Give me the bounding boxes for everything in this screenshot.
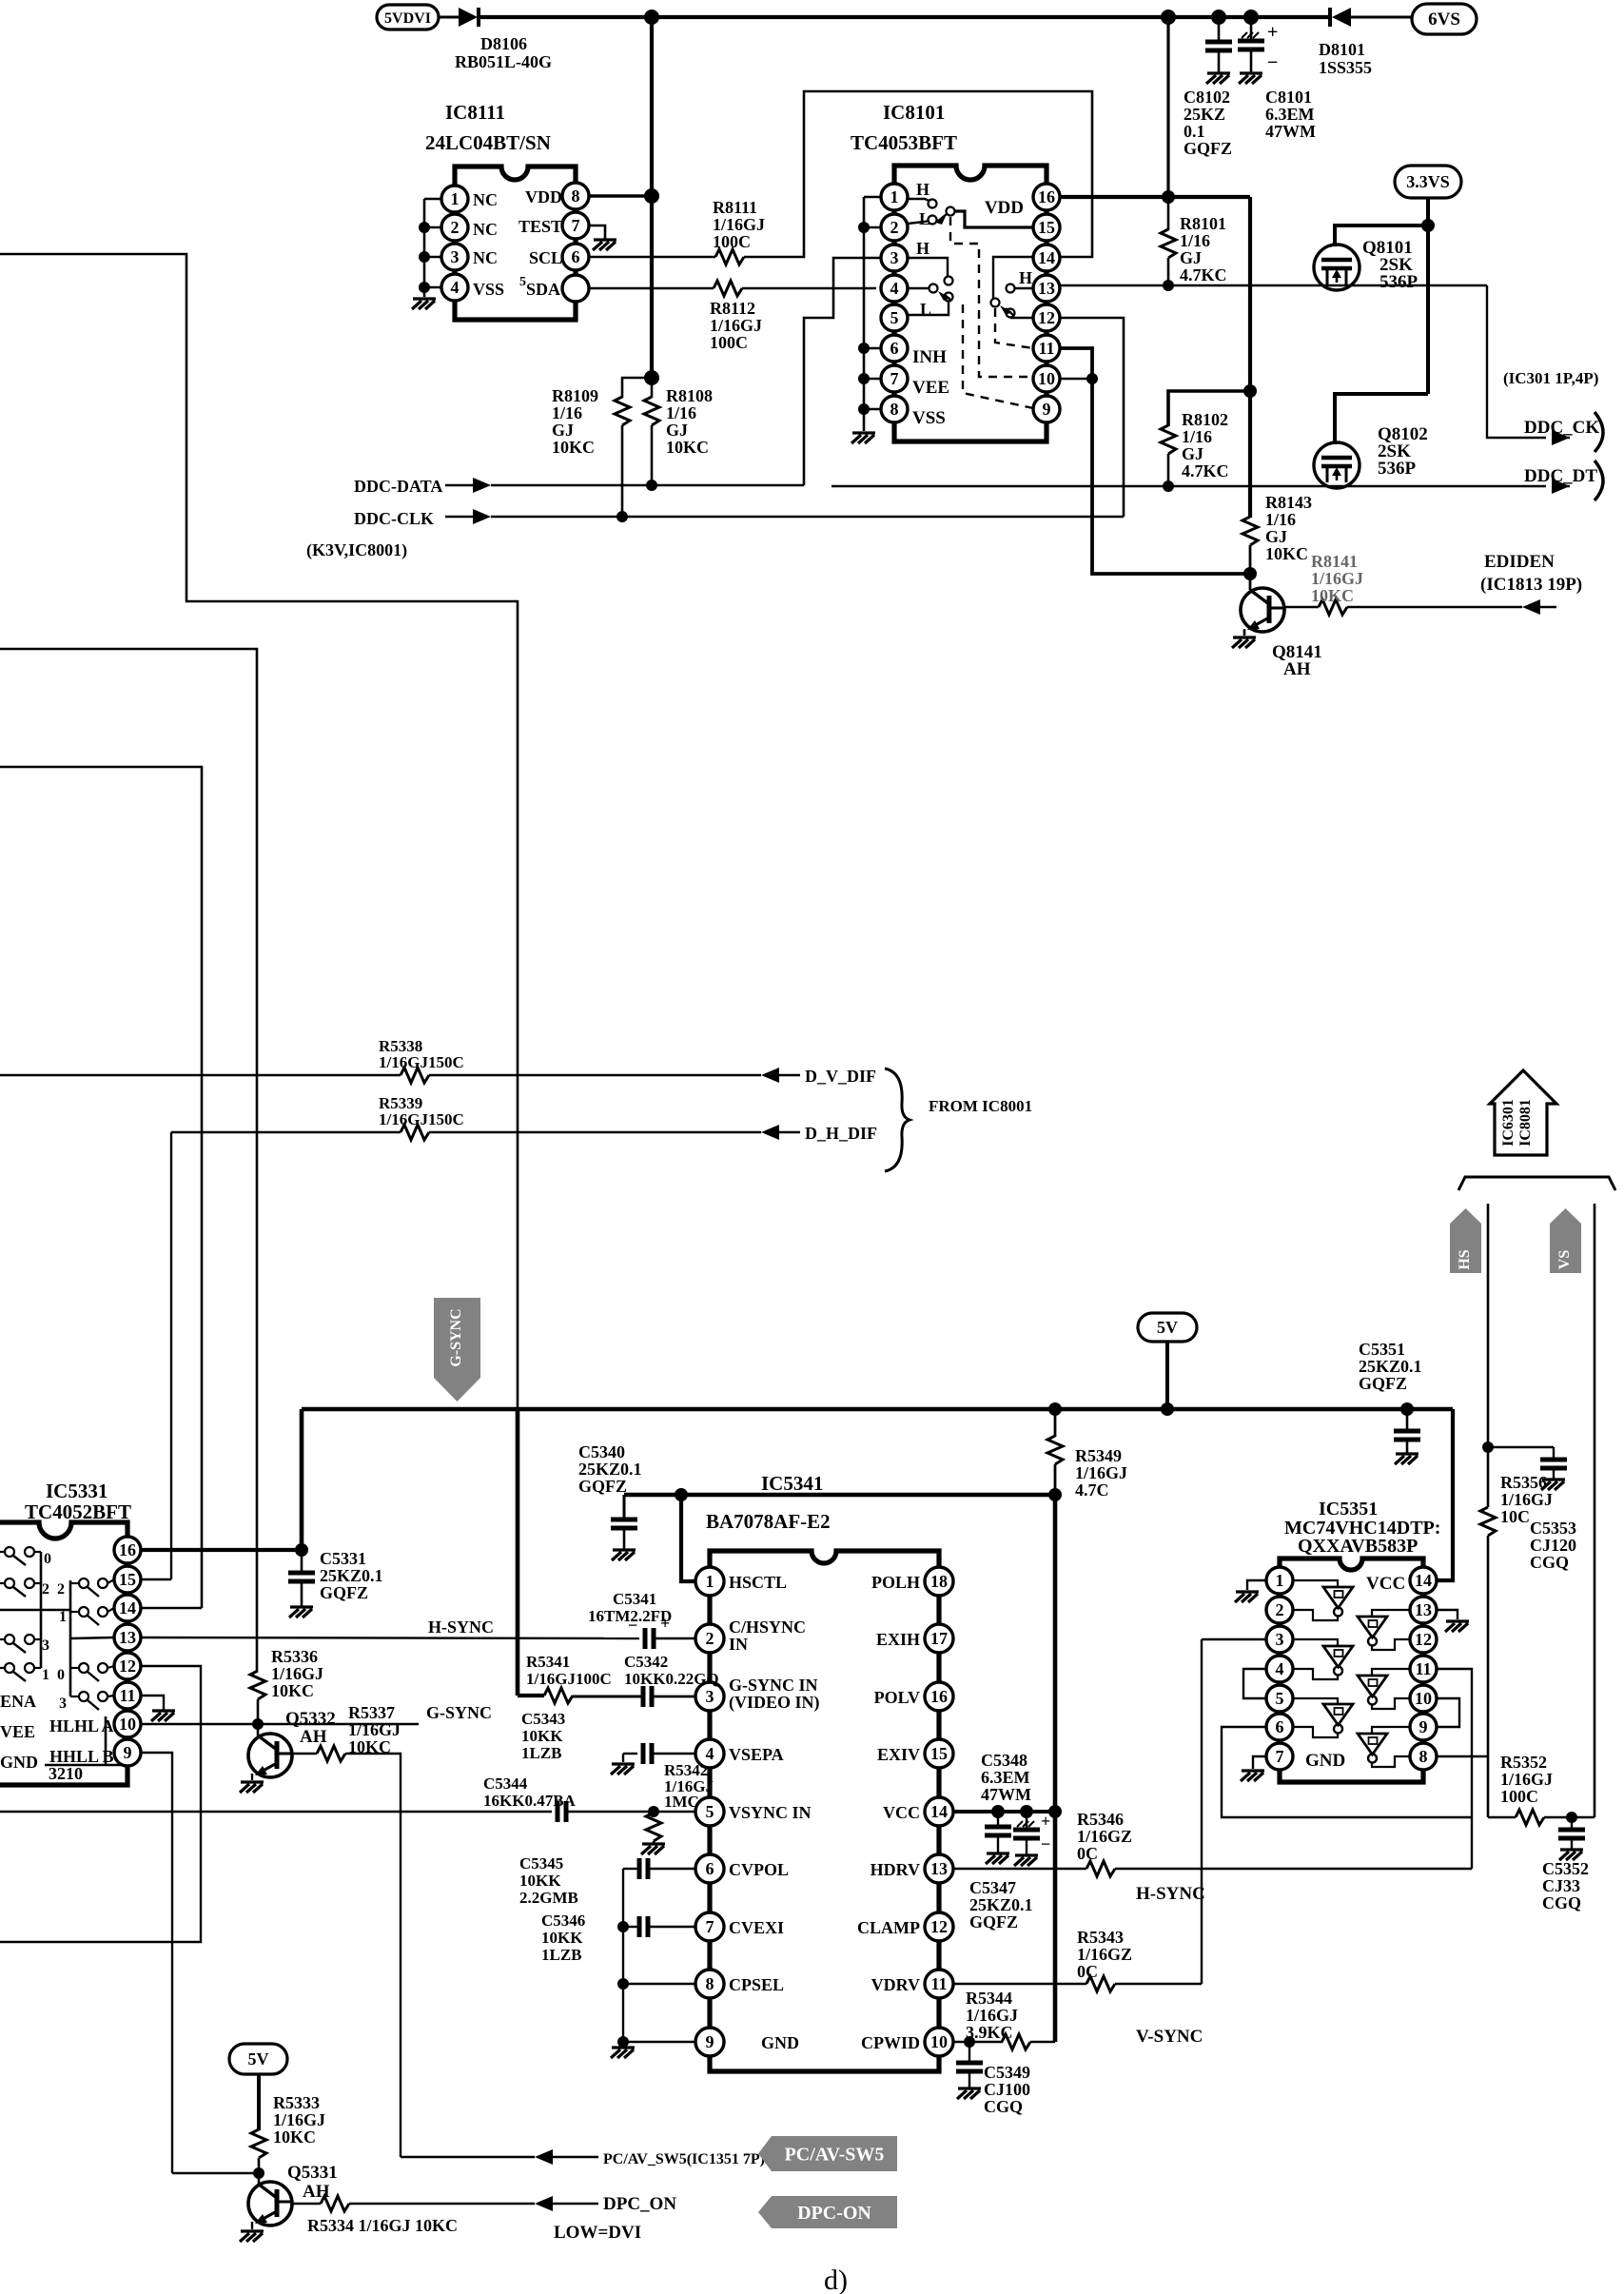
svg-text:7: 7 bbox=[706, 1917, 714, 1936]
wire pin10 CPWID bbox=[952, 2041, 1003, 2043]
resistor R5343 bbox=[1086, 1976, 1115, 1991]
resistor R5349 bbox=[1054, 1409, 1057, 1437]
wire pin11 VDRV out bbox=[952, 1983, 1086, 1985]
wire VSYNC-IN from left edge bbox=[0, 1811, 552, 1813]
junction rail / R5349 bbox=[1048, 1402, 1062, 1416]
svg-text:1/16GJ: 1/16GJ bbox=[348, 1720, 401, 1739]
junction rail / IC5341 pin1 bbox=[675, 1488, 688, 1501]
svg-text:CVPOL: CVPOL bbox=[729, 1860, 789, 1879]
svg-text:VDRV: VDRV bbox=[871, 1975, 920, 1994]
IC5341 pin 7 bbox=[695, 1912, 724, 1941]
wire pin15 to D_H_DIF riser bbox=[141, 1578, 171, 1580]
IC5341 pin 16 bbox=[925, 1682, 953, 1711]
svg-text:EXIV: EXIV bbox=[877, 1745, 920, 1764]
IC5331 internal pin14 row line bbox=[0, 1609, 70, 1612]
IC5351 pin 10 bbox=[1410, 1685, 1437, 1712]
capacitor C5353 bbox=[1540, 1460, 1567, 1468]
wire R5341 to C5342 bbox=[573, 1696, 643, 1698]
wire R8108 top bbox=[651, 378, 654, 398]
junction IC8101 pin6 bbox=[858, 343, 870, 354]
wire C5344 to pin5 bbox=[566, 1811, 696, 1813]
inverter gate 6 bbox=[1358, 1734, 1387, 1755]
svg-text:14: 14 bbox=[1038, 248, 1055, 267]
wire pin11 ground stub bbox=[141, 1696, 164, 1710]
resistor R5333 bbox=[251, 2129, 266, 2158]
wire D_V_DIF bbox=[0, 1074, 401, 1076]
junction x1314 y411 bbox=[1243, 384, 1257, 398]
svg-text:1: 1 bbox=[706, 1572, 714, 1591]
wire pin12 down-left exit bbox=[0, 1666, 201, 1942]
svg-text:C5342: C5342 bbox=[624, 1653, 668, 1671]
svg-text:1/16: 1/16 bbox=[1180, 231, 1210, 250]
arrow D_H_DIF bbox=[761, 1125, 779, 1140]
resistor R8102 bbox=[1161, 425, 1176, 454]
IC5331 internal switch contacts left group bbox=[0, 1551, 4, 1553]
wire IC8101 left common bus bbox=[864, 196, 881, 199]
switch SW-C contacts (pins13/12) bbox=[1007, 284, 1015, 293]
wire down to R8143 bbox=[1248, 391, 1252, 518]
svg-text:D_V_DIF: D_V_DIF bbox=[805, 1067, 876, 1086]
svg-text:8: 8 bbox=[572, 186, 580, 206]
svg-text:1SS355: 1SS355 bbox=[1319, 58, 1372, 77]
svg-text:13: 13 bbox=[1415, 1600, 1432, 1619]
svg-text:15: 15 bbox=[930, 1744, 948, 1763]
svg-text:VSYNC IN: VSYNC IN bbox=[729, 1803, 812, 1822]
ground IC8111 TEST bbox=[593, 240, 616, 250]
transistor Q8101 (2SK536P MOSFET) bbox=[1314, 245, 1360, 290]
wire pin8 VDD bbox=[589, 194, 652, 198]
wire D8106 to top rail bbox=[479, 15, 1330, 19]
svg-text:R8108: R8108 bbox=[666, 386, 713, 405]
junction R5349 / VCC rail bbox=[1048, 1488, 1062, 1501]
svg-text:3.9KC: 3.9KC bbox=[966, 2023, 1013, 2042]
IC8101 pin 11 bbox=[1033, 335, 1060, 362]
svg-text:POLH: POLH bbox=[871, 1573, 920, 1592]
svg-text:13: 13 bbox=[119, 1628, 136, 1647]
svg-text:7: 7 bbox=[572, 216, 580, 235]
svg-text:10KC: 10KC bbox=[1311, 586, 1354, 605]
signal banner G-SYNC bbox=[434, 1298, 480, 1402]
svg-text:R5334 1/16GJ 10KC: R5334 1/16GJ 10KC bbox=[307, 2216, 458, 2235]
wire pin9 input g6 bbox=[1372, 1727, 1410, 1734]
wire pin8 stub bbox=[864, 408, 881, 411]
svg-text:IC8111: IC8111 bbox=[445, 101, 505, 124]
svg-text:2: 2 bbox=[890, 218, 899, 237]
capacitor C5348 electrolytic bbox=[1026, 1812, 1027, 1829]
arrow DDC_DT bbox=[1552, 479, 1570, 494]
svg-text:100C: 100C bbox=[710, 333, 748, 352]
svg-text:LOW=DVI: LOW=DVI bbox=[554, 2223, 641, 2243]
svg-text:R8102: R8102 bbox=[1182, 410, 1228, 429]
svg-text:CJ33: CJ33 bbox=[1542, 1876, 1580, 1895]
wire HS to pin8 row bbox=[1487, 1536, 1490, 1756]
IC8111 pin 7 bbox=[562, 212, 589, 239]
svg-text:R5349: R5349 bbox=[1075, 1446, 1122, 1465]
svg-text:INH: INH bbox=[912, 347, 947, 367]
resistor R8143 bbox=[1242, 517, 1258, 545]
svg-text:6.3EM: 6.3EM bbox=[981, 1768, 1030, 1787]
IC8101 pin 14 bbox=[1033, 245, 1060, 271]
brace FROM IC8001 bbox=[885, 1069, 910, 1171]
svg-text:G-SYNC IN: G-SYNC IN bbox=[729, 1676, 818, 1695]
svg-text:14: 14 bbox=[1415, 1571, 1432, 1590]
svg-text:C5341: C5341 bbox=[613, 1590, 656, 1608]
wire H-SYNC riser to IC5351 pin3 bbox=[1201, 1639, 1203, 1869]
wire IC8101 pin16 to VDD bbox=[1060, 195, 1250, 199]
capacitor C5352 bbox=[1571, 1817, 1573, 1830]
svg-text:10KC: 10KC bbox=[1265, 544, 1308, 563]
svg-text:3: 3 bbox=[451, 247, 460, 266]
wire Q8101 drain to DDC_CK bbox=[1487, 285, 1546, 438]
wire R8141 to EDIDEN bbox=[1347, 606, 1522, 608]
IC5341 pin 17 bbox=[925, 1624, 953, 1653]
svg-text:D8101: D8101 bbox=[1319, 40, 1365, 59]
wire 3.3VS stem bbox=[1426, 198, 1430, 225]
ground Q5331 emitter bbox=[251, 2222, 253, 2229]
capacitor C5343 series bbox=[643, 1743, 652, 1764]
svg-text:2: 2 bbox=[451, 218, 460, 237]
wire IC8101 pin11 riser bbox=[1060, 348, 1250, 574]
svg-text:GND: GND bbox=[761, 2033, 799, 2052]
wire C5346 to pin7 bbox=[648, 1926, 696, 1928]
resistor R8109 bbox=[615, 397, 630, 425]
svg-text:EDIDEN: EDIDEN bbox=[1484, 552, 1555, 572]
capacitor C5351 bbox=[1406, 1409, 1409, 1431]
svg-text:3.3VS: 3.3VS bbox=[1406, 172, 1450, 191]
IC5341 pin 12 bbox=[925, 1912, 953, 1941]
power terminal 3.3VS bbox=[1395, 166, 1461, 198]
wire C5353 branch bbox=[1488, 1446, 1554, 1448]
IC5341 pin 4 bbox=[695, 1739, 724, 1768]
wire V-SYNC riser bbox=[1201, 1869, 1203, 1984]
wire pin11 input g4 bbox=[1372, 1669, 1410, 1676]
dashed control line to pin9 bbox=[963, 304, 1033, 408]
wire SW-C to pin12 bbox=[1010, 317, 1033, 319]
wire pin14 to line-C riser bbox=[141, 1607, 202, 1609]
power terminal 5V bottom bbox=[229, 2044, 287, 2074]
arrow DDC-DATA bbox=[445, 484, 473, 486]
IC5351 pin 12 bbox=[1410, 1626, 1437, 1653]
svg-text:HHLL B: HHLL B bbox=[49, 1747, 114, 1766]
svg-text:5VDVI: 5VDVI bbox=[384, 10, 431, 27]
IC5331 pin 9 bbox=[114, 1739, 141, 1766]
svg-text:6: 6 bbox=[572, 247, 580, 266]
svg-text:AH: AH bbox=[1283, 659, 1311, 679]
svg-text:9: 9 bbox=[1419, 1717, 1428, 1736]
resistor R8101 bbox=[1167, 197, 1170, 230]
IC5331 pin 16 bbox=[114, 1537, 141, 1563]
wire pin13 HDRV out bbox=[952, 1868, 1086, 1870]
svg-text:NC: NC bbox=[473, 190, 498, 209]
svg-text:(VIDEO IN): (VIDEO IN) bbox=[729, 1693, 820, 1713]
bracket DDC_CK bbox=[1595, 412, 1603, 452]
wire 5V stem bbox=[1165, 1342, 1169, 1409]
junction IC8101 pin7 bbox=[858, 373, 870, 384]
power terminal 5VDVI bbox=[377, 5, 439, 29]
inverter gate 3 bbox=[1323, 1646, 1353, 1667]
transistor Q8141 bbox=[1249, 574, 1252, 590]
svg-text:R8109: R8109 bbox=[552, 386, 598, 405]
junction VDD bus pin8 bbox=[644, 188, 659, 204]
svg-text:Q5332: Q5332 bbox=[285, 1709, 336, 1729]
wire R5352 to VS riser bbox=[1544, 1816, 1595, 1818]
svg-text:6: 6 bbox=[1276, 1717, 1284, 1736]
IC5331 pin 13 bbox=[114, 1624, 141, 1651]
ground IC5351 pin13 bbox=[1445, 1621, 1469, 1632]
svg-text:−: − bbox=[1041, 1834, 1050, 1853]
svg-text:R5343: R5343 bbox=[1077, 1928, 1124, 1947]
svg-text:8: 8 bbox=[890, 400, 899, 419]
resistor R5341 bbox=[544, 1688, 573, 1703]
IC5341 pin 3 bbox=[695, 1682, 724, 1711]
svg-text:DDC_CK: DDC_CK bbox=[1524, 418, 1599, 438]
wire pin14 VCC bbox=[952, 1810, 1055, 1814]
wire gate feed Q8102 bbox=[1335, 394, 1428, 444]
svg-text:11: 11 bbox=[1038, 339, 1054, 358]
svg-text:10KK: 10KK bbox=[541, 1929, 583, 1947]
svg-text:16KK0.47BA: 16KK0.47BA bbox=[483, 1792, 577, 1810]
svg-text:12: 12 bbox=[930, 1917, 948, 1936]
wire pin2 stub bbox=[424, 226, 441, 229]
svg-text:CLAMP: CLAMP bbox=[857, 1918, 920, 1937]
wire R8112 to IC8101 pin4 bbox=[742, 287, 876, 290]
svg-text:−: − bbox=[1267, 52, 1278, 73]
ground IC5331 pin11 bbox=[151, 1711, 175, 1721]
signal banner VS bbox=[1550, 1208, 1581, 1273]
wire SCL pin6 to R8111 bbox=[589, 256, 715, 259]
svg-text:IC6301: IC6301 bbox=[1500, 1099, 1516, 1147]
svg-text:C/HSYNC: C/HSYNC bbox=[729, 1618, 806, 1637]
svg-text:HDRV: HDRV bbox=[871, 1860, 920, 1879]
ground C5348 bbox=[1014, 1855, 1038, 1866]
svg-text:16: 16 bbox=[119, 1540, 136, 1559]
resistor R5344 bbox=[1002, 2034, 1030, 2049]
capacitor C5347 bbox=[997, 1812, 999, 1827]
svg-text:R5341: R5341 bbox=[526, 1653, 570, 1671]
wire g3 out to pin4 bbox=[1293, 1669, 1338, 1679]
svg-text:(IC1813 19P): (IC1813 19P) bbox=[1480, 575, 1582, 595]
svg-text:11: 11 bbox=[119, 1686, 135, 1705]
wire pin2 to SW-A L bbox=[908, 221, 929, 224]
power terminal 6VS bbox=[1412, 4, 1477, 34]
svg-text:3: 3 bbox=[890, 248, 899, 267]
wire pin8 junction to R5352 bbox=[1487, 1756, 1490, 1817]
svg-text:DDC_DT: DDC_DT bbox=[1524, 466, 1597, 486]
svg-text:1/16GJ: 1/16GJ bbox=[1311, 569, 1363, 588]
svg-text:NC: NC bbox=[473, 220, 498, 239]
wire Q8141 collector bbox=[1282, 606, 1319, 608]
IC8101 pin 15 bbox=[1033, 214, 1060, 241]
arrow DPC_ON bbox=[535, 2196, 553, 2211]
switch SW-A arm bbox=[936, 214, 947, 225]
svg-text:3210: 3210 bbox=[49, 1764, 83, 1783]
ground IC5351 pin1 bbox=[1235, 1592, 1259, 1602]
wire SW-C H to pin13 bbox=[1014, 287, 1033, 289]
IC5331 pin 10 bbox=[114, 1711, 141, 1737]
svg-text:R8112: R8112 bbox=[710, 299, 755, 318]
wire G-SYNC to R5341 bbox=[518, 1694, 544, 1697]
junction pin16/R8101 bbox=[1162, 190, 1175, 204]
wire line-C from left edge bbox=[0, 767, 202, 1608]
junction Q5331 base bbox=[253, 2167, 264, 2179]
svg-text:7: 7 bbox=[1276, 1747, 1284, 1766]
wire VCC rail horiz bbox=[624, 1493, 1055, 1498]
signal banner DPC-ON bbox=[758, 2196, 897, 2228]
capacitor C5345 series bbox=[639, 1858, 648, 1879]
svg-text:2: 2 bbox=[57, 1581, 65, 1598]
IC8111 pin 3 bbox=[441, 244, 468, 270]
ground C5340 bbox=[612, 1550, 636, 1560]
signal banner PC/AV-SW5 bbox=[758, 2136, 897, 2171]
wire HS line bbox=[1487, 1204, 1490, 1507]
wire R8108 bottom bbox=[651, 425, 654, 485]
ground Q5332 emitter bbox=[251, 1774, 253, 1780]
svg-text:1/16GJ: 1/16GJ bbox=[1500, 1770, 1553, 1789]
svg-text:C5349: C5349 bbox=[984, 2063, 1030, 2082]
junction R8102 / DDC_DT line bbox=[1163, 480, 1174, 492]
svg-text:VSEPA: VSEPA bbox=[729, 1745, 784, 1764]
wire g4 out to pin10 bbox=[1372, 1698, 1410, 1709]
svg-text:VEE: VEE bbox=[0, 1722, 35, 1741]
wire C5343 to pin4 bbox=[652, 1753, 696, 1755]
IC8111 pin 6 bbox=[562, 244, 589, 270]
wire vertical VDD bus x=685 bbox=[650, 17, 654, 378]
dashed control line to pin10 bbox=[950, 217, 1033, 377]
svg-text:3: 3 bbox=[59, 1696, 67, 1712]
wire R5334 to DPC_ON bbox=[349, 2203, 535, 2205]
svg-text:SDA: SDA bbox=[526, 280, 560, 299]
junction pin10 on riser bbox=[1086, 373, 1098, 384]
switch SW-C arm bbox=[1000, 305, 1012, 315]
svg-text:536P: 536P bbox=[1378, 459, 1417, 479]
capacitor C5349 bbox=[969, 2042, 970, 2063]
svg-text:C8101: C8101 bbox=[1265, 88, 1312, 107]
wire DDC-CLK bbox=[491, 516, 1124, 518]
svg-text:VCC: VCC bbox=[1366, 1574, 1405, 1594]
svg-text:IC5341: IC5341 bbox=[761, 1472, 823, 1495]
IC8101 pin 13 bbox=[1033, 275, 1060, 302]
wire 3.3VS down bbox=[1426, 225, 1430, 394]
svg-text:PC/AV_SW5(IC1351 7P): PC/AV_SW5(IC1351 7P) bbox=[603, 2151, 765, 2167]
svg-text:1/16GJ: 1/16GJ bbox=[1075, 1463, 1127, 1482]
junction VDD bus bottom bbox=[644, 370, 659, 385]
wire rail left drop to IC5331 pin16 bbox=[300, 1409, 304, 1550]
svg-text:VDD: VDD bbox=[525, 187, 562, 206]
IC5331 pin 11 bbox=[114, 1682, 141, 1709]
IC5331 internal switch contacts right group bbox=[70, 1582, 79, 1584]
svg-text:25KZ0.1: 25KZ0.1 bbox=[578, 1460, 642, 1479]
junction cap bus pin7 bbox=[617, 1921, 629, 1932]
wire pin9 riser down bbox=[141, 1753, 172, 2173]
IC5341 pin 9 bbox=[695, 2028, 724, 2056]
resistor R5356 bbox=[1480, 1507, 1496, 1536]
svg-text:4.7KC: 4.7KC bbox=[1182, 461, 1229, 480]
svg-text:1/16GJ100C: 1/16GJ100C bbox=[526, 1670, 612, 1688]
svg-text:16: 16 bbox=[1038, 187, 1055, 206]
svg-text:13: 13 bbox=[930, 1859, 948, 1878]
svg-text:C5347: C5347 bbox=[969, 1878, 1016, 1897]
capacitor C5344 series bbox=[558, 1801, 566, 1822]
svg-text:D_H_DIF: D_H_DIF bbox=[805, 1124, 877, 1143]
svg-text:RB051L-40G: RB051L-40G bbox=[455, 52, 552, 71]
svg-text:C5344: C5344 bbox=[483, 1774, 528, 1793]
svg-text:2: 2 bbox=[42, 1581, 49, 1598]
svg-text:VSS: VSS bbox=[912, 408, 946, 428]
switch SW-B arm bbox=[938, 291, 950, 301]
IC5341 pin 15 bbox=[925, 1739, 953, 1768]
svg-text:10: 10 bbox=[930, 2032, 948, 2051]
ground C5353 bbox=[1541, 1480, 1565, 1490]
capacitor C5341 series polarized bbox=[645, 1628, 654, 1649]
svg-text:2: 2 bbox=[706, 1629, 714, 1648]
svg-text:6.3EM: 6.3EM bbox=[1265, 105, 1315, 124]
wire IC8101 pin3 to DDC-DATA bbox=[804, 258, 881, 485]
svg-text:4.7KC: 4.7KC bbox=[1180, 265, 1227, 284]
wire Q5331 collector bbox=[290, 2203, 321, 2205]
wire C5345 to pin6 bbox=[648, 1868, 696, 1870]
wire R5337 to PC/AV riser bbox=[345, 1754, 401, 2157]
wire SW-B L to pin5 bbox=[908, 302, 949, 315]
junction HS / C5353 bbox=[1482, 1441, 1494, 1453]
svg-text:1/16GJ: 1/16GJ bbox=[966, 2006, 1018, 2025]
svg-text:5: 5 bbox=[1276, 1689, 1284, 1708]
svg-text:4: 4 bbox=[1276, 1659, 1284, 1678]
svg-text:1/16GZ: 1/16GZ bbox=[1077, 1945, 1132, 1964]
junction cap bus pin9 bbox=[617, 2036, 629, 2048]
svg-text:1LZB: 1LZB bbox=[541, 1946, 582, 1964]
wire Q5332 collector bbox=[290, 1753, 317, 1755]
svg-text:HLHL A: HLHL A bbox=[49, 1716, 114, 1735]
IC5331 pin 15 bbox=[114, 1566, 141, 1593]
capacitor C5331 bbox=[301, 1550, 303, 1573]
transistor Q8102 (2SK536P MOSFET) bbox=[1314, 442, 1360, 488]
svg-text:1/16: 1/16 bbox=[552, 403, 582, 422]
ground below C8101 bbox=[1239, 73, 1262, 84]
wire pin6 cap bus bbox=[623, 1868, 637, 1870]
IC5341 pin 6 bbox=[695, 1854, 724, 1883]
svg-text:R5336: R5336 bbox=[271, 1647, 318, 1666]
IC5351 pin 14 bbox=[1410, 1567, 1437, 1594]
svg-text:DDC-CLK: DDC-CLK bbox=[354, 509, 434, 528]
IC5351 pin 8 bbox=[1410, 1743, 1437, 1770]
switch SW-B contacts (pins3/4/5) bbox=[945, 277, 953, 285]
junction top rail / C8101 bbox=[1243, 10, 1259, 25]
svg-text:GQFZ: GQFZ bbox=[969, 1912, 1018, 1931]
junction top rail / IC8111 VDD drop bbox=[644, 10, 659, 25]
wire R5343 to V-SYNC riser bbox=[1115, 1983, 1202, 1985]
svg-text:10: 10 bbox=[119, 1715, 136, 1734]
transistor Q5332 bbox=[257, 1724, 260, 1735]
svg-text:H-SYNC: H-SYNC bbox=[1136, 1884, 1205, 1904]
ground IC5351 pin7 bbox=[1241, 1771, 1264, 1781]
svg-text:11: 11 bbox=[1415, 1659, 1431, 1678]
wire VS line bbox=[1594, 1204, 1596, 1817]
svg-text:10: 10 bbox=[1415, 1689, 1432, 1708]
svg-text:9: 9 bbox=[706, 2032, 714, 2051]
ground cap bus bbox=[611, 2048, 635, 2058]
wire pin1 HSCTL feed bbox=[681, 1495, 696, 1581]
wire jog to R8102 bbox=[1168, 391, 1250, 426]
IC8101 pin 2 bbox=[881, 214, 908, 241]
junction VCC/C5348 bbox=[1020, 1805, 1033, 1818]
IC5351 pin 2 bbox=[1266, 1597, 1293, 1623]
bracket to IC6301/IC8081 bbox=[1458, 1177, 1615, 1190]
arrow D_V_DIF bbox=[761, 1068, 779, 1083]
svg-text:C5343: C5343 bbox=[521, 1710, 565, 1728]
svg-text:8: 8 bbox=[1419, 1747, 1428, 1766]
svg-text:100C: 100C bbox=[713, 232, 751, 251]
wire VDD drop x=1228 bbox=[1166, 17, 1169, 197]
